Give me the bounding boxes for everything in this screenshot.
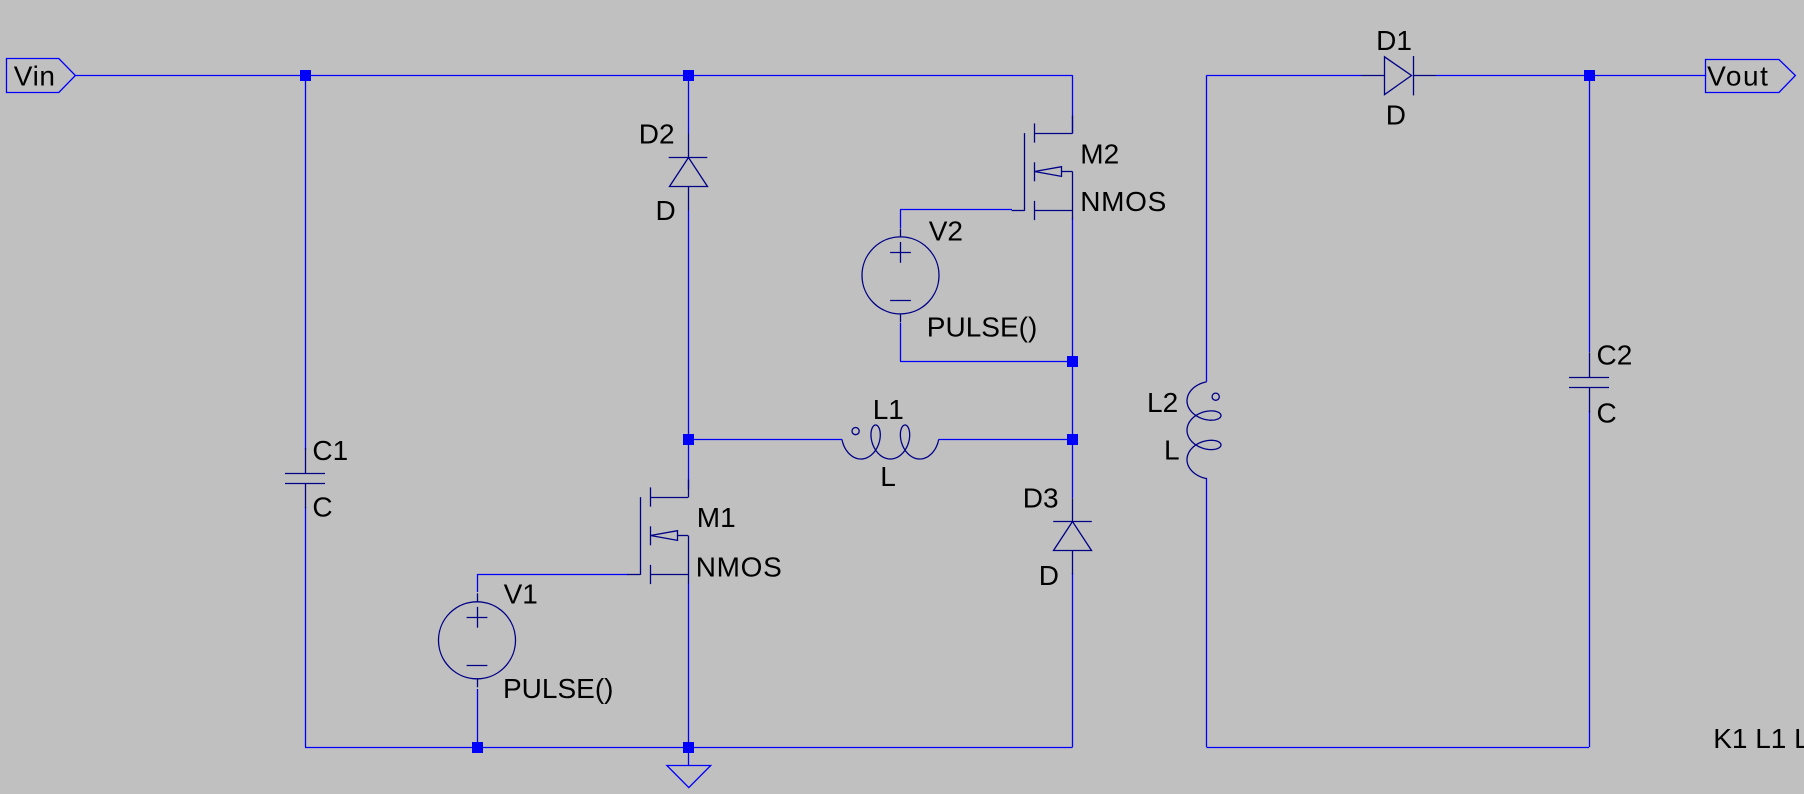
capacitor C1	[285, 448, 325, 508]
wire V1 plus up to gate level	[477, 574, 479, 592]
capacitor C2	[1569, 352, 1609, 412]
svg-text:M1: M1	[697, 502, 736, 533]
svg-text:V2: V2	[929, 216, 963, 247]
wire M2 drain vertical drop from top net	[1072, 75, 1074, 133]
diode D1	[1361, 56, 1436, 95]
wire V1 minus lead to ground net	[477, 689, 479, 747]
junction node V2 return at M2 source rail	[1067, 356, 1078, 367]
wire L2 bottom down to return net	[1206, 478, 1208, 747]
phase dot L2	[1212, 393, 1219, 400]
wire M1 drain up to mid node	[688, 440, 690, 489]
svg-text:Vout: Vout	[1707, 61, 1769, 92]
svg-text:D2: D2	[639, 118, 675, 149]
svg-text:M2: M2	[1080, 139, 1119, 170]
voltage source V1	[439, 593, 516, 687]
wire V2 to M2 gate	[900, 209, 1012, 211]
svg-text:K1 L1 L2 1: K1 L1 L2 1	[1713, 723, 1804, 754]
transistor M2	[1012, 116, 1073, 221]
svg-text:D: D	[1386, 99, 1406, 130]
wire V1 to M1 gate	[477, 574, 628, 576]
inductor L1	[842, 425, 939, 459]
svg-text:L: L	[1164, 435, 1180, 466]
svg-text:NMOS: NMOS	[696, 551, 783, 582]
wire bottom ground net (left circuit)	[305, 747, 1073, 749]
svg-text:L2: L2	[1147, 387, 1178, 418]
junction node top net at C2	[1584, 70, 1595, 81]
svg-text:D: D	[656, 195, 676, 226]
wire C1 branch upper (top net down to C1)	[305, 75, 307, 450]
svg-text:D3: D3	[1023, 483, 1059, 514]
wire L2 top up to output top net	[1206, 75, 1208, 382]
junction node mid node at D3	[1067, 434, 1078, 445]
svg-text:L: L	[880, 461, 896, 492]
junction node top net at C1	[300, 70, 311, 81]
junction node top net at D2	[683, 70, 694, 81]
wire C2 branch upper	[1589, 75, 1591, 352]
svg-text:D1: D1	[1376, 25, 1412, 56]
svg-text:D: D	[1039, 560, 1059, 591]
diode D2	[669, 134, 708, 210]
ground symbol	[667, 747, 711, 788]
svg-text:C1: C1	[312, 435, 348, 466]
diode D3	[1053, 498, 1092, 574]
transistor M1	[627, 480, 688, 585]
svg-text:C: C	[312, 492, 332, 523]
junction node ground net at V1	[472, 742, 483, 753]
inductor L2	[1187, 382, 1221, 479]
voltage source V2	[862, 228, 939, 322]
wire C1 branch lower (C1 down to ground net)	[305, 507, 307, 747]
svg-text:PULSE(): PULSE()	[927, 311, 1037, 342]
wire D3 anode down to ground net	[1072, 573, 1074, 747]
wire C2 branch lower	[1589, 411, 1591, 747]
wire mid node to L1 left terminal	[688, 439, 842, 441]
svg-text:Vin: Vin	[14, 60, 56, 91]
svg-text:C2: C2	[1597, 339, 1633, 370]
junction node mid node at M1 drain	[683, 434, 694, 445]
wire D2 anode down to mid node	[688, 210, 690, 440]
wire M2 source down through V2 return node to D3 node	[1072, 218, 1074, 498]
wire V2 minus lead down to return wire	[900, 323, 902, 361]
port flag Vin	[7, 59, 76, 93]
wire top net Vin (Vin flag to M2 drain corner)	[75, 75, 1072, 77]
phase dot L1	[852, 428, 859, 435]
svg-text:NMOS: NMOS	[1080, 186, 1167, 217]
wire L1 right terminal to D3 node	[939, 439, 1073, 441]
wire output top net D1 to Vout flag	[1436, 75, 1706, 77]
wire bottom return net (right circuit)	[1207, 747, 1589, 749]
wire V2 plus up to gate level	[900, 210, 902, 228]
wire V2 return horizontal	[900, 361, 1073, 363]
svg-text:V1: V1	[504, 578, 538, 609]
svg-text:L1: L1	[873, 394, 904, 425]
port flag Vout	[1706, 60, 1796, 93]
wire D2 cathode up to top net	[688, 75, 690, 134]
junction node ground net at M1 source	[683, 742, 694, 753]
wire output top net left of D1	[1207, 75, 1361, 77]
svg-text:C: C	[1597, 397, 1617, 428]
svg-text:PULSE(): PULSE()	[503, 673, 613, 704]
wire M1 source down to ground net	[688, 583, 690, 747]
